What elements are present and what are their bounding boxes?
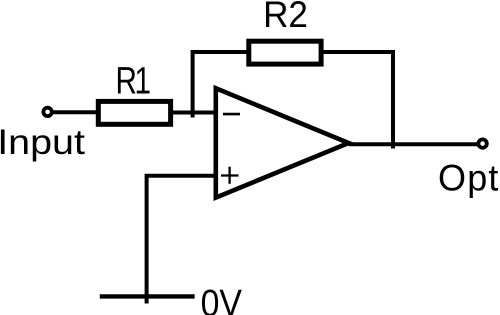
label 0V (201, 281, 242, 315)
svg-text:0V: 0V (201, 281, 242, 315)
junction node at inverting input (191, 52, 195, 118)
svg-text:R2: R2 (263, 0, 308, 35)
label R1 (116, 60, 151, 102)
svg-text:R1: R1 (116, 60, 151, 102)
wire R2 right lead to feedback drop (321, 50, 395, 54)
resistor R1 (98, 101, 170, 124)
wire R1 to op-amp inverting input (173, 111, 216, 115)
label R2 (263, 0, 308, 35)
svg-text:Opt: Opt (438, 157, 500, 199)
wire input terminal to R1 (53, 110, 98, 114)
label Input (0, 122, 86, 162)
label Output (clipped "Opt") (438, 157, 500, 199)
resistor R2 (249, 41, 321, 64)
svg-text:Input: Input (0, 122, 86, 162)
input terminal (43, 108, 51, 116)
op-amp U1 (216, 88, 349, 197)
ground rail 0V (100, 294, 195, 298)
wire non-inverting input to ground drop (147, 176, 216, 304)
wire feedback vertical drop to output node (391, 50, 395, 149)
wire junction up to R2 left lead (191, 50, 248, 54)
wire op-amp output to terminal (349, 142, 478, 146)
output terminal (478, 139, 486, 147)
